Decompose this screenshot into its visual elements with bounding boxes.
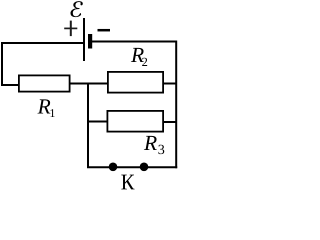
wire: R1 right to R2 left [70, 83, 109, 85]
label: plus sign [64, 21, 77, 36]
wire: left rail [1, 42, 3, 86]
label R3 subscript 3 [158, 145, 164, 154]
switch K terminal dot right [140, 163, 149, 172]
label R2 subscript 2 [142, 58, 147, 66]
label K (switch) [121, 175, 134, 190]
label R2 letter [131, 48, 144, 62]
label: EMF script E [70, 1, 82, 17]
battery EMF source: long thin plate (+) [83, 18, 85, 61]
wire: top rail left segment [1, 42, 84, 44]
wire: top rail right segment [92, 41, 178, 43]
label: minus sign [98, 29, 111, 32]
resistor R3 [107, 111, 163, 132]
resistor R1 [19, 75, 70, 91]
wire: right rail [175, 41, 177, 169]
wire: R1 left stub [1, 84, 20, 86]
resistor R2 [108, 72, 163, 93]
label R1 letter [37, 99, 50, 113]
label R3 letter [144, 136, 157, 150]
switch K terminal dot left [109, 163, 118, 172]
wire: R3 left stub [87, 121, 108, 123]
wire: R2 right stub [163, 83, 177, 85]
wire: bottom rail (switch branch) [87, 166, 177, 168]
wire: R3 right stub [163, 121, 177, 123]
wire: middle vertical wire [87, 83, 89, 168]
label R1 subscript 1 [50, 109, 54, 117]
battery EMF source: short thick plate (-) [88, 34, 92, 49]
